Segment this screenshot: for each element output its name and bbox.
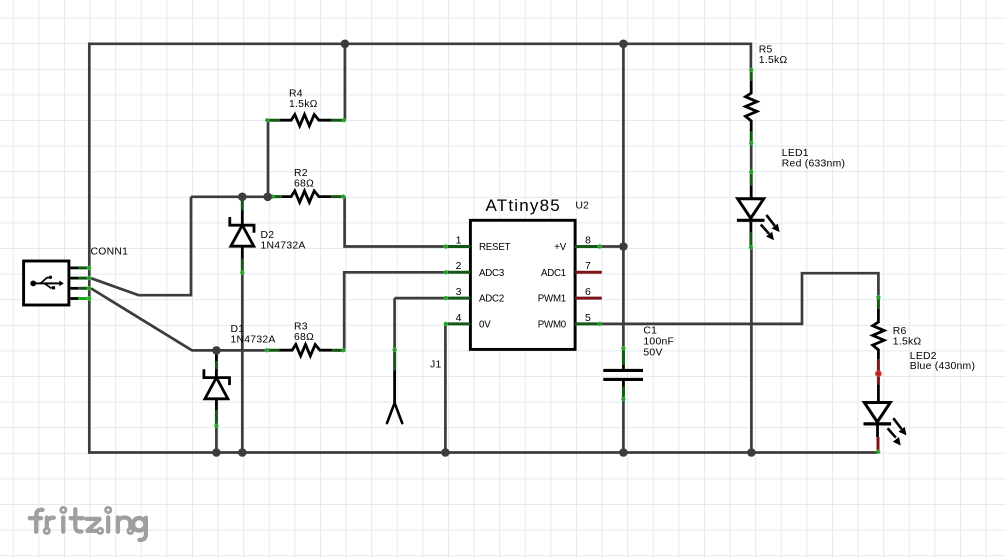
resistor R6 [873,296,884,385]
svg-text:R3: R3 [294,322,308,333]
svg-text:ADC2: ADC2 [479,294,504,305]
svg-text:1: 1 [456,234,462,246]
connector J1 [387,348,402,423]
svg-text:PWM1: PWM1 [538,294,566,305]
zener diode D2 [230,199,254,275]
svg-text:2: 2 [456,260,462,272]
svg-text:C1: C1 [643,326,657,337]
node +V pin8 [619,242,628,251]
pin 4 0V [444,312,491,331]
svg-text:50V: 50V [643,348,662,359]
svg-text:ATtiny85: ATtiny85 [485,196,560,215]
wire red LED2-rail [877,437,880,452]
svg-text:3: 3 [456,286,462,298]
wire red R6-LED2 [877,360,880,385]
wire D2 anode down [241,274,244,453]
node top +V [619,40,628,49]
svg-text:ADC3: ADC3 [479,268,504,279]
svg-text:J1: J1 [430,360,441,371]
svg-text:R4: R4 [289,89,303,100]
CONN1 pin 3 [69,287,78,290]
wire bottom rail [88,451,878,454]
svg-text:+V: +V [554,242,566,253]
resistor R2 [271,191,346,202]
svg-text:100nF: 100nF [643,337,674,348]
svg-text:D2: D2 [261,230,275,241]
node D2 top [238,193,247,202]
wire PWM0 to R6 [601,273,879,324]
svg-text:1.5kΩ: 1.5kΩ [289,99,318,110]
IC U2 ATtiny85 [470,196,589,349]
svg-text:4: 4 [456,312,462,324]
svg-text:7: 7 [585,260,591,272]
svg-text:U2: U2 [575,200,589,212]
svg-text:CONN1: CONN1 [91,247,129,258]
wire left rail [88,44,91,453]
LED2 [864,384,907,453]
node top R4 [341,40,350,49]
svg-text:Red (633nm): Red (633nm) [782,158,845,169]
svg-text:R5: R5 [759,44,773,55]
wire 0V down [444,324,447,453]
pin 8 +V [554,234,601,253]
pin 3 ADC2 [444,286,504,305]
pin 6 PWM1 stub [538,286,602,305]
node LED1 bottom [747,448,756,457]
wire R3 to ADC3 [333,272,445,350]
svg-text:Blue (430nm): Blue (430nm) [910,361,975,372]
wire J1 to ADC2 [395,297,445,300]
wire R2 to RESET [345,197,445,247]
wire top rail [88,42,751,45]
zener diode D1 [204,352,230,428]
svg-text:1.5kΩ: 1.5kΩ [759,55,788,66]
node 0V bottom [441,448,450,457]
LED1 [737,170,780,249]
svg-text:ADC1: ADC1 [541,268,566,279]
pin 5 PWM0 [538,312,602,331]
wire R4 left down to node [267,120,270,197]
wire node row to R2 [191,195,273,198]
wire CONN1 pin2 feed [91,197,191,295]
node R4/R2 [263,193,272,202]
wire LED1 to bottom rail [750,248,753,453]
CONN1 pin 1 [69,266,78,269]
wire R4 right to top rail [344,44,347,120]
resistor R5 [746,68,757,145]
svg-text:1.5kΩ: 1.5kΩ [893,336,922,347]
CONN1 pin 2 [69,277,78,280]
node D1 top [212,346,221,355]
wire +V link [601,245,624,248]
svg-text:PWM0: PWM0 [538,320,567,331]
svg-text:8: 8 [585,234,591,246]
connector CONN1 USB [24,261,91,305]
wire +V rail vertical [622,44,625,453]
svg-text:0V: 0V [479,320,491,331]
wire D1 anode down [215,427,218,453]
svg-text:68Ω: 68Ω [294,332,314,343]
fritzing logo [30,507,146,540]
svg-text:RESET: RESET [479,242,511,253]
CONN1 pin 4 [69,297,78,300]
svg-text:6: 6 [585,286,591,298]
wire CONN1 pin3 feed [91,288,216,350]
resistor R4 [266,115,346,126]
svg-text:5: 5 [585,312,591,324]
node D2 bottom [238,448,247,457]
pin 1 RESET [444,234,511,253]
wire D1 node to R3 [216,349,266,352]
svg-text:1N4732A: 1N4732A [261,241,306,252]
node C1 bottom [619,448,628,457]
svg-text:R2: R2 [294,168,308,179]
pin 2 ADC3 [444,260,504,279]
capacitor C1 [603,347,643,401]
wire J1 stem upper [393,298,396,348]
svg-text:D1: D1 [231,324,245,335]
wire R5 to LED1 [750,145,753,172]
svg-text:68Ω: 68Ω [294,179,314,190]
resistor R3 [265,345,345,356]
node D1 bottom [212,448,221,457]
svg-text:1N4732A: 1N4732A [231,335,276,346]
wire top rail down to R5 [750,43,753,69]
pin 7 ADC1 stub [541,260,602,279]
